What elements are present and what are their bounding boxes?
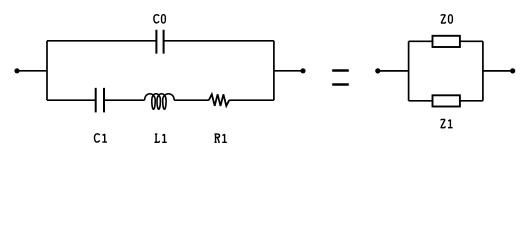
label Z0 [441, 15, 452, 23]
wire left rail [46, 41, 48, 100]
wire bottom branch to Z1 [409, 100, 433, 102]
wire top branch to Z0 [409, 40, 433, 42]
label C1 [94, 134, 106, 142]
wire right rail of right network [482, 41, 484, 101]
wire input of right network [378, 70, 409, 72]
wire between C1 and L1 [104, 99, 145, 101]
node left terminal dot of right network [375, 68, 380, 73]
wire right rail [273, 41, 275, 100]
impedance Z1 [433, 95, 460, 106]
label L1 [154, 134, 166, 142]
wire right output [274, 70, 303, 72]
wire from Z0 to right rail [460, 40, 483, 42]
wire output of right network [483, 70, 513, 72]
inductor L1 [145, 94, 175, 109]
wire left input [17, 70, 47, 72]
wire top branch right of C0 [164, 40, 274, 42]
label C0 [154, 15, 166, 23]
label Z1 [441, 119, 453, 127]
label R1 [214, 134, 226, 142]
capacitor C0 [156, 30, 163, 54]
wire bottom branch left of C1 [47, 99, 96, 101]
wire top branch left of C0 [47, 40, 156, 42]
capacitor C1 [96, 88, 104, 113]
wire between L1 and R1 [174, 99, 209, 101]
wire from Z1 to right rail [460, 100, 483, 102]
wire between R1 and right rail [229, 99, 274, 101]
equivalence sign [332, 71, 349, 85]
node right terminal dot [510, 68, 515, 73]
resistor R1 [209, 94, 229, 106]
node left terminal dot [14, 68, 19, 73]
wire left rail of right network [408, 41, 410, 101]
impedance Z0 [433, 36, 460, 47]
node right terminal dot of left network [300, 68, 305, 73]
